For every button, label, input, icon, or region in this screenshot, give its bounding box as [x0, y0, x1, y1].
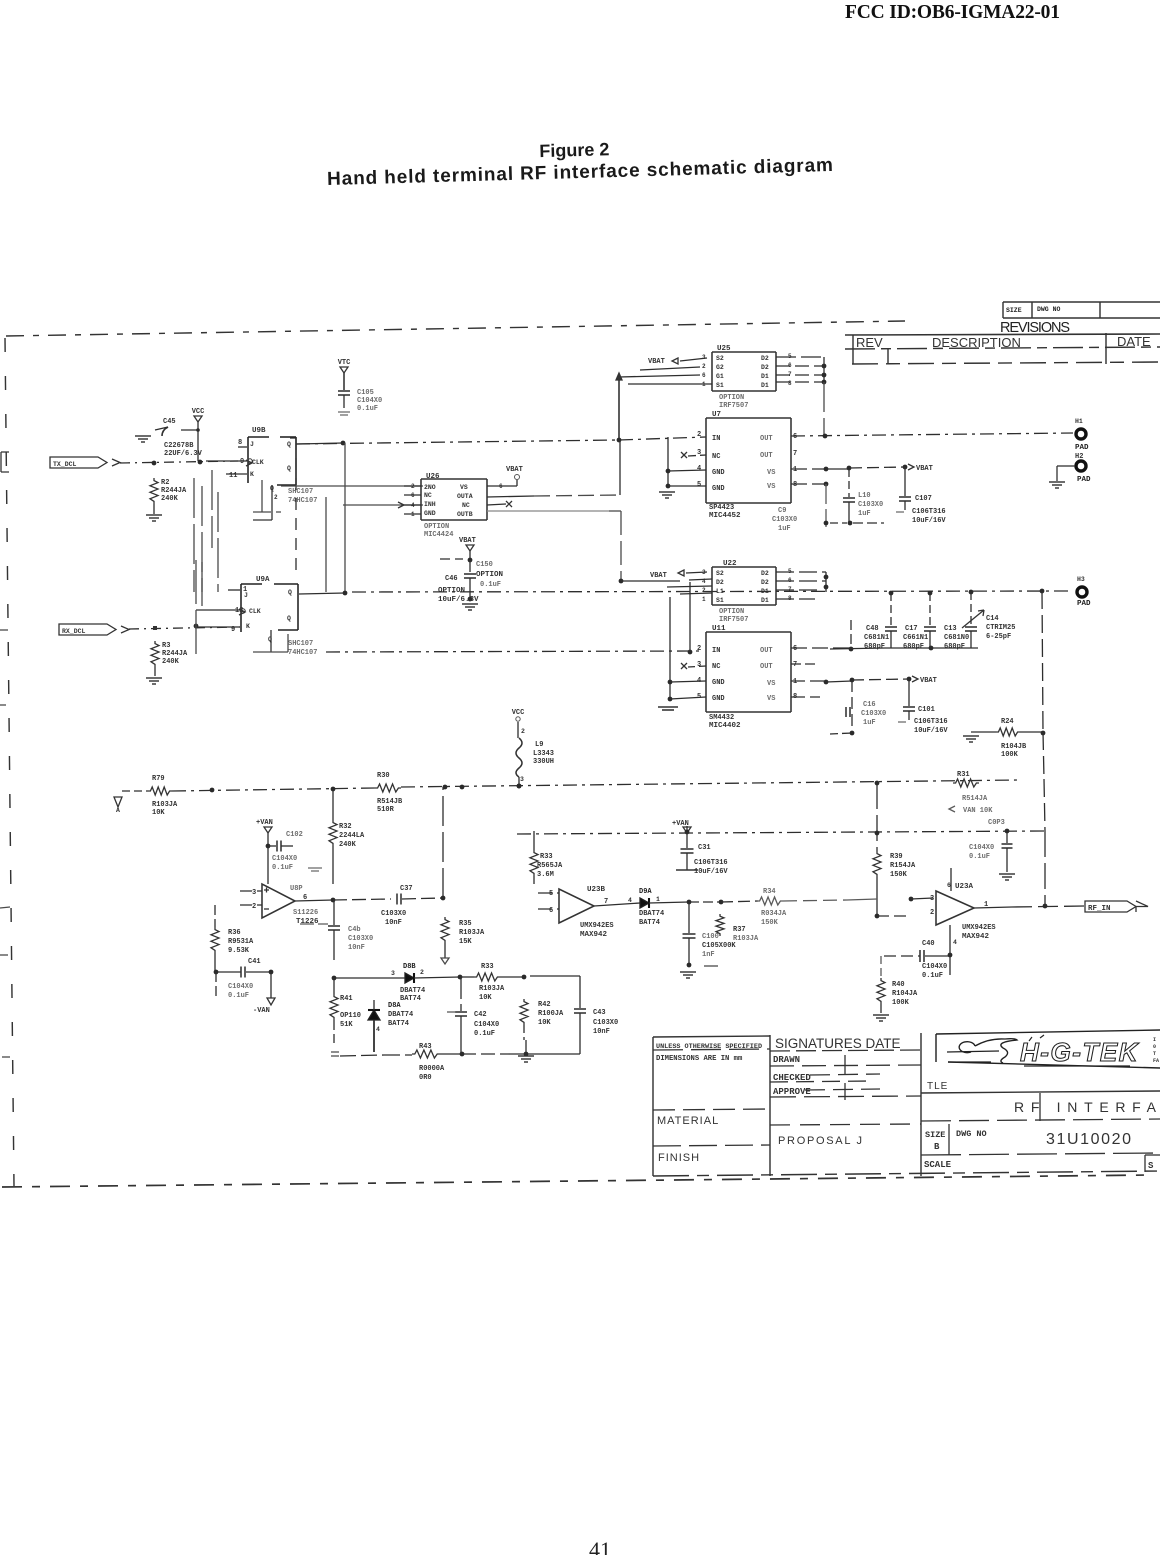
svg-text:H1: H1: [1075, 418, 1083, 425]
U25 right wires: [776, 357, 826, 436]
svg-text:10uF/6.3V: 10uF/6.3V: [438, 596, 479, 604]
svg-text:41: 41: [589, 1537, 611, 1555]
svg-text:6: 6: [947, 882, 951, 889]
svg-text:S: S: [1148, 1161, 1154, 1171]
pad H3: [1077, 576, 1091, 608]
svg-text:OUT: OUT: [760, 647, 773, 655]
svg-text:OPTION: OPTION: [424, 523, 449, 531]
svg-text:VS: VS: [767, 469, 775, 477]
svg-text:J: J: [250, 441, 254, 448]
pad H2: [1075, 453, 1091, 484]
dwg no label: [956, 1129, 987, 1139]
figure title: [326, 133, 833, 190]
U9B pin wires: [206, 447, 247, 474]
wire R43 to gnd: [462, 1052, 545, 1057]
ground left of C45: [135, 436, 151, 442]
svg-text:R43: R43: [419, 1043, 432, 1051]
title label: [927, 1081, 948, 1092]
svg-text:NC: NC: [712, 663, 720, 671]
wire RX_DCLK to R3 node: [129, 624, 240, 630]
resistor R41: [330, 978, 361, 1043]
IC U26 box: [421, 473, 487, 520]
svg-text:D1: D1: [761, 597, 769, 604]
svg-text:0.1uF: 0.1uF: [228, 992, 249, 1000]
svg-text:U25: U25: [717, 345, 731, 353]
svg-text:FINISH: FINISH: [658, 1152, 700, 1164]
wire U23A out to RF_IN: [1012, 831, 1085, 908]
svg-text:DBAT74: DBAT74: [639, 910, 664, 918]
svg-text:G2: G2: [716, 364, 724, 371]
U9B part number: [288, 488, 317, 505]
svg-text:OPTION: OPTION: [719, 394, 744, 402]
svg-text:VBAT: VBAT: [920, 677, 937, 685]
U7 VS wires: [791, 466, 851, 487]
svg-text:RX_DCL: RX_DCL: [62, 628, 86, 635]
capacitor C102: [268, 831, 322, 884]
svg-text:UMX942ES: UMX942ES: [580, 922, 614, 930]
svg-text:1uF: 1uF: [858, 510, 871, 518]
svg-text:SIZE: SIZE: [1006, 307, 1022, 314]
svg-text:R514JA: R514JA: [962, 795, 988, 803]
svg-text:2: 2: [274, 494, 278, 501]
sheet border bottom (dashed): [2, 1175, 1152, 1187]
capacitor C46: [438, 560, 503, 604]
VBAT arrow right of U7: [850, 464, 933, 473]
size label: [925, 1130, 945, 1152]
svg-text:8: 8: [238, 439, 242, 447]
svg-text:1: 1: [793, 466, 797, 474]
svg-text:I: I: [1153, 1037, 1156, 1043]
wire U26 OUTA to U7 (bus C riser): [487, 440, 620, 497]
svg-text:FCC ID:OB6-IGMA22-01: FCC ID:OB6-IGMA22-01: [845, 2, 1060, 23]
IC U11 box: [706, 625, 791, 712]
svg-text:TLE: TLE: [927, 1081, 948, 1092]
svg-text:10uF/16V: 10uF/16V: [912, 517, 946, 525]
svg-text:R40: R40: [892, 981, 905, 989]
scale label: [924, 1160, 1154, 1171]
svg-text:R34: R34: [763, 888, 776, 896]
svg-text:IN: IN: [712, 647, 720, 655]
svg-text:RF INTERFA: RF INTERFA: [1014, 1099, 1160, 1115]
C23 cap at U23A top: [875, 819, 1015, 880]
svg-text:9.53K: 9.53K: [228, 947, 250, 955]
U22 right wires: [776, 572, 828, 599]
diode D8B: [332, 963, 463, 1003]
svg-text:MAX942: MAX942: [580, 931, 608, 939]
svg-text:IRF7507: IRF7507: [719, 616, 748, 624]
connector J2 RX_DCLK: [59, 624, 129, 635]
svg-text:MATERIAL: MATERIAL: [657, 1115, 719, 1127]
svg-text:SM4432: SM4432: [709, 714, 734, 722]
svg-text:VTC: VTC: [338, 359, 351, 367]
svg-text:S11226: S11226: [293, 909, 318, 917]
svg-text:C106T316: C106T316: [914, 718, 948, 726]
wire U9B Q to bus C: [297, 441, 345, 446]
svg-text:DESCRIPTION: DESCRIPTION: [932, 335, 1021, 350]
svg-text:240K: 240K: [161, 495, 179, 503]
svg-text:C46: C46: [445, 575, 458, 583]
ground below R2: [146, 515, 162, 521]
svg-text:OUT: OUT: [760, 663, 773, 671]
ground below C100: [680, 972, 696, 978]
svg-text:SHC107: SHC107: [288, 488, 313, 496]
capacitor C9 labels: [772, 484, 828, 533]
svg-text:CLK: CLK: [252, 459, 264, 466]
svg-text:100K: 100K: [1001, 751, 1019, 759]
node A arrow: [114, 791, 148, 814]
svg-text:S1: S1: [716, 382, 724, 389]
svg-text:C104X0: C104X0: [474, 1021, 499, 1029]
svg-text:D9A: D9A: [639, 888, 652, 896]
op-amp U8: [240, 884, 335, 918]
page header FCC ID: [845, 2, 1060, 23]
VTC symbol top: [338, 359, 351, 390]
proposal label: [778, 1135, 864, 1147]
svg-text:0R0: 0R0: [419, 1074, 432, 1082]
svg-text:GND: GND: [424, 510, 436, 517]
svg-text:MIC4452: MIC4452: [709, 512, 741, 520]
pad H1: [1075, 418, 1089, 452]
svg-text:IN: IN: [712, 435, 720, 443]
svg-text:NC: NC: [462, 502, 470, 509]
capacitor C16: [846, 701, 886, 727]
svg-text:150K: 150K: [761, 919, 779, 927]
capacitor C31: [676, 832, 728, 876]
svg-text:SP4423: SP4423: [709, 504, 734, 512]
ground mid-bottom: [518, 1040, 534, 1062]
svg-text:C104X0: C104X0: [272, 855, 297, 863]
svg-text:6: 6: [499, 483, 503, 490]
ground below U11: [658, 707, 678, 710]
svg-text:2: 2: [521, 728, 525, 735]
diode D8A: [368, 1000, 413, 1052]
svg-text:C14: C14: [986, 615, 999, 623]
U11 GND wires: [668, 597, 706, 701]
svg-text:DRAWN: DRAWN: [773, 1055, 800, 1065]
svg-text:R30: R30: [377, 772, 390, 780]
svg-text:R034JA: R034JA: [761, 910, 787, 918]
capacitor C40: [884, 925, 957, 980]
resistor R24: [971, 718, 1045, 759]
capacitor C13: [944, 592, 977, 651]
svg-text:10uF/16V: 10uF/16V: [914, 727, 948, 735]
svg-text:R244JA: R244JA: [161, 487, 187, 495]
svg-text:C101: C101: [918, 706, 935, 714]
svg-text:3.6M: 3.6M: [537, 871, 554, 879]
svg-text:VBAT: VBAT: [650, 572, 667, 580]
svg-text:C106T316: C106T316: [912, 508, 946, 516]
svg-text:G1: G1: [716, 373, 724, 380]
U22 part number: [719, 608, 748, 624]
svg-text:R104JB: R104JB: [1001, 743, 1027, 751]
svg-text:C0P3: C0P3: [988, 819, 1005, 827]
svg-text:C13: C13: [944, 625, 957, 633]
capacitor C17: [903, 593, 936, 651]
svg-text:C105X00K: C105X00K: [702, 942, 736, 950]
revisions table header SIZE: [1006, 307, 1022, 314]
U23A part number: [962, 924, 996, 941]
logo side text: [1153, 1037, 1159, 1064]
page number: [589, 1537, 611, 1555]
svg-text:DIMENSIONS ARE IN mm: DIMENSIONS ARE IN mm: [656, 1055, 743, 1063]
svg-text:OPTION: OPTION: [719, 608, 744, 616]
svg-text:680pF: 680pF: [903, 643, 924, 651]
op-amp U8 part number: [293, 909, 319, 926]
signatures rows: [773, 1055, 880, 1100]
svg-text:C150: C150: [476, 561, 493, 569]
svg-text:GND: GND: [712, 679, 725, 687]
svg-text:K: K: [246, 623, 250, 630]
svg-text:UNLESS OTHERWISE SPECIFIED: UNLESS OTHERWISE SPECIFIED: [656, 1043, 762, 1051]
drawing title RF INTERFACE: [1014, 1099, 1160, 1115]
ground below C46: [462, 604, 478, 610]
svg-text:SIGNATURES DATE: SIGNATURES DATE: [775, 1036, 903, 1051]
svg-text:Q: Q: [287, 441, 291, 448]
svg-text:R37: R37: [733, 926, 746, 934]
svg-text:2244LA: 2244LA: [339, 832, 365, 840]
capacitor C43: [530, 976, 618, 1054]
svg-text:D2: D2: [761, 570, 769, 577]
wire U9A Q segment: [299, 591, 347, 596]
svg-text:MAX942: MAX942: [962, 933, 990, 941]
svg-text:DWG NO: DWG NO: [956, 1129, 987, 1139]
resistor R43: [331, 1043, 464, 1082]
resistor R79: [148, 775, 178, 817]
svg-text:R32: R32: [339, 823, 352, 831]
svg-text:R42: R42: [538, 1001, 551, 1009]
U25 pin text: [702, 353, 792, 389]
svg-text:C40: C40: [922, 940, 935, 948]
svg-text:10nF: 10nF: [593, 1028, 610, 1036]
svg-text:7: 7: [793, 450, 797, 458]
U26 part number: [424, 523, 453, 539]
svg-text:4: 4: [628, 897, 632, 904]
svg-text:R79: R79: [152, 775, 165, 783]
capacitor C45: [155, 418, 203, 458]
svg-text:C41: C41: [248, 958, 261, 966]
svg-text:C31: C31: [698, 844, 711, 852]
VBAT feed to U25: [616, 358, 712, 440]
svg-text:R24: R24: [1001, 718, 1014, 726]
finish label: [658, 1152, 700, 1164]
svg-text:A: A: [116, 807, 120, 814]
U7 pin text: [697, 431, 797, 493]
svg-text:3: 3: [697, 661, 701, 669]
svg-text:VBAT: VBAT: [648, 358, 665, 366]
U9A pin wires: [196, 560, 240, 658]
inductor L9: [516, 738, 554, 788]
revisions title: [1000, 320, 1070, 336]
svg-text:10nF: 10nF: [348, 944, 365, 952]
sheet border left (dashed): [5, 338, 14, 1186]
VBAT feed to U22: [619, 570, 712, 594]
svg-text:DATE: DATE: [1117, 334, 1151, 349]
svg-text:Q: Q: [288, 589, 292, 596]
svg-text:BAT74: BAT74: [639, 919, 660, 927]
svg-text:S2: S2: [716, 355, 724, 362]
wire H3 riser: [1042, 591, 1045, 831]
svg-text:D2: D2: [761, 355, 769, 362]
revisions table frame: [845, 302, 1160, 364]
capacitor C105: [338, 389, 382, 415]
IC U22 box: [712, 560, 776, 605]
svg-text:4: 4: [376, 1026, 380, 1033]
svg-text:SCALE: SCALE: [924, 1160, 952, 1170]
ground at H2: [1049, 466, 1075, 488]
svg-text:4: 4: [697, 465, 701, 473]
svg-text:5: 5: [697, 481, 701, 489]
svg-text:74HC107: 74HC107: [288, 497, 317, 505]
svg-text:U23A: U23A: [955, 883, 974, 891]
svg-text:D2: D2: [761, 579, 769, 586]
svg-text:Q: Q: [287, 615, 291, 622]
svg-text:REVISIONS: REVISIONS: [1000, 320, 1070, 336]
ground below R3: [146, 678, 162, 684]
svg-text:10K: 10K: [538, 1019, 551, 1027]
svg-text:C103X0: C103X0: [858, 501, 883, 509]
connector J1 TX_DCLK: [50, 457, 120, 468]
svg-text:R0000A: R0000A: [419, 1065, 445, 1073]
wire bus C horizontal: [290, 437, 706, 575]
svg-text:C45: C45: [163, 418, 176, 426]
U9A part number: [288, 640, 317, 657]
resistor R36: [211, 905, 254, 974]
svg-text:C9: C9: [778, 507, 786, 515]
U26 pin text: [411, 483, 473, 518]
svg-text:U8P: U8P: [290, 885, 303, 893]
wire VS junction down to C16 rail: [830, 680, 854, 735]
svg-text:VS: VS: [767, 483, 775, 491]
svg-text:U9A: U9A: [256, 576, 270, 584]
resistor R37: [716, 914, 759, 943]
U9A lower wires: [253, 582, 699, 654]
svg-text:OP110: OP110: [340, 1012, 361, 1020]
svg-text:2: 2: [420, 969, 424, 976]
svg-text:2NO: 2NO: [424, 484, 436, 491]
svg-text:L3343: L3343: [533, 750, 554, 758]
svg-text:L10: L10: [858, 492, 871, 500]
capacitor C41: [216, 958, 273, 1000]
resistor R31: [949, 771, 993, 815]
svg-text:U11: U11: [712, 625, 726, 633]
material label: [657, 1115, 719, 1127]
svg-text:3: 3: [252, 889, 256, 897]
resistor R32: [329, 789, 365, 884]
left edge ticks: [0, 630, 10, 1057]
svg-text:C105: C105: [357, 389, 374, 397]
svg-text:D8A: D8A: [388, 1002, 401, 1010]
svg-text:0.1uF: 0.1uF: [922, 972, 943, 980]
revisions col DATE: [1117, 334, 1151, 349]
svg-text:U26: U26: [426, 473, 440, 481]
resistor R39: [847, 783, 933, 918]
svg-text:D1: D1: [761, 382, 769, 389]
svg-text:0: 0: [1153, 1044, 1156, 1050]
svg-text:D1: D1: [761, 373, 769, 380]
svg-text:R103JA: R103JA: [459, 929, 485, 937]
svg-text:C103X0: C103X0: [593, 1019, 618, 1027]
svg-text:CTRIM25: CTRIM25: [986, 624, 1015, 632]
svg-text:0.1uF: 0.1uF: [272, 864, 293, 872]
svg-text:Q: Q: [287, 465, 291, 472]
svg-text:5: 5: [549, 890, 553, 898]
wire U26 OUTB: [487, 511, 621, 581]
ground at R24: [963, 736, 979, 742]
svg-text:R104JA: R104JA: [892, 990, 918, 998]
ground below U7 GND: [659, 492, 675, 498]
svg-text:U22: U22: [723, 560, 737, 568]
svg-text:R154JA: R154JA: [890, 862, 916, 870]
svg-text:PAD: PAD: [1075, 444, 1089, 452]
capacitor C42: [447, 977, 499, 1054]
svg-text:FA: FA: [1153, 1058, 1159, 1064]
svg-text:CLK: CLK: [249, 608, 261, 615]
U7 part number: [709, 504, 741, 520]
svg-text:2: 2: [697, 645, 701, 653]
svg-text:VBAT: VBAT: [916, 465, 933, 473]
svg-text:R103JA: R103JA: [479, 985, 505, 993]
svg-text:1uF: 1uF: [778, 525, 791, 533]
U25 part number: [719, 394, 748, 410]
title block frame: [653, 1033, 1160, 1176]
svg-text:3: 3: [930, 895, 934, 903]
svg-text:R3: R3: [162, 642, 170, 650]
svg-text:B: B: [934, 1142, 940, 1152]
svg-text:GND: GND: [712, 695, 725, 703]
ground below R40: [873, 1015, 889, 1021]
svg-text:6-25pF: 6-25pF: [986, 633, 1011, 641]
revisions table header DWG NO: [1037, 306, 1061, 313]
VAN tick on bus B: [672, 820, 691, 834]
revisions col REV: [856, 335, 883, 350]
U7 GND wires: [666, 437, 706, 488]
resistor R34: [757, 888, 847, 927]
svg-text:330UH: 330UH: [533, 758, 554, 766]
svg-text:MIC4424: MIC4424: [424, 531, 453, 539]
svg-text:6: 6: [549, 907, 553, 915]
capacitor C101: [898, 679, 948, 735]
svg-text:R100JA: R100JA: [538, 1010, 564, 1018]
svg-text:APPROVE: APPROVE: [773, 1087, 811, 1097]
capacitor L10 (C103X0): [830, 469, 884, 525]
svg-text:MIC4402: MIC4402: [709, 722, 741, 730]
svg-text:VAN 10K: VAN 10K: [963, 807, 993, 815]
svg-text:J: J: [244, 592, 248, 599]
svg-text:DBAT74: DBAT74: [400, 987, 425, 995]
U26 NC x mark: [487, 501, 512, 507]
svg-text:R36: R36: [228, 929, 241, 937]
svg-text:VCC: VCC: [192, 408, 205, 416]
U22 pin text: [702, 568, 792, 604]
svg-text:680pF: 680pF: [944, 643, 965, 651]
svg-text:8: 8: [788, 380, 792, 387]
svg-text:7: 7: [793, 661, 797, 669]
comparator U23A: [930, 868, 1012, 925]
svg-text:22UF/6.3V: 22UF/6.3V: [164, 450, 203, 458]
svg-text:NC: NC: [712, 453, 720, 461]
svg-text:SHC107: SHC107: [288, 640, 313, 648]
svg-text:6: 6: [702, 372, 706, 379]
VBAT at C46: [440, 537, 476, 562]
resistor R30: [375, 772, 403, 814]
U8 feedback cap C4b: [300, 900, 373, 960]
svg-text:INH: INH: [424, 501, 436, 508]
resistor R33h: [460, 963, 526, 1002]
U26 left pin wires: [398, 486, 421, 514]
resistor R2: [150, 478, 187, 514]
U9A pin labels: [231, 586, 292, 634]
svg-text:H3: H3: [1077, 576, 1085, 583]
